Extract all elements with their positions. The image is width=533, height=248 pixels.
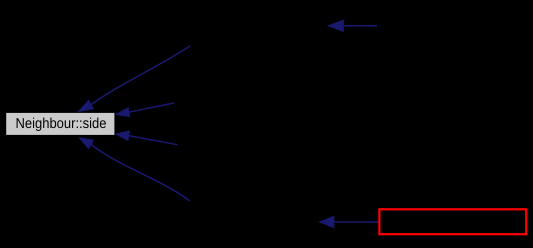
edge: upper-middle caller -> Neighbour::side (straight) [129, 103, 174, 112]
node Neighbour::side (current node, grey fill, black border) [6, 112, 115, 135]
arrowhead of top curved edge [79, 100, 94, 111]
node: truncated caller (red border, transparent fill) [379, 209, 526, 234]
arrowhead of top-right horizontal edge [328, 20, 343, 31]
svg-text:Neighbour::side: Neighbour::side [15, 116, 106, 132]
edge: top-right second-level caller -> top caller (horizontal) [343, 25, 377, 27]
arrowhead of upper-middle edge [116, 108, 130, 117]
edge: lower-middle caller -> Neighbour::side (straight) [129, 136, 178, 145]
arrowhead of bottom-right horizontal edge [320, 216, 334, 227]
arrowhead of bottom curved edge [79, 138, 93, 149]
arrowhead of lower-middle edge [116, 131, 130, 140]
edge: red truncated caller -> bottom caller (horizontal) [334, 221, 379, 223]
edge: top caller -> Neighbour::side (curved, midnightblue) [91, 46, 190, 105]
edge: bottom caller -> Neighbour::side (curved) [91, 144, 190, 201]
